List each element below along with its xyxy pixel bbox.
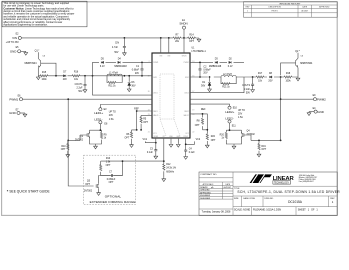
diode D5 6.1V: [101, 61, 104, 63]
svg-text:REF: REF: [134, 108, 139, 110]
svg-text:TECHNOLOGY: TECHNOLOGY: [274, 183, 290, 185]
transistor Q1 MMBT3904: [38, 59, 41, 68]
ground (E5): [24, 51, 28, 55]
terminal E11 LED2-: [228, 120, 231, 123]
svg-text:CONTRACT NO.: CONTRACT NO.: [200, 173, 217, 176]
U1 exposed pad (dashed): [160, 74, 174, 119]
ground (Q2 emitter): [296, 77, 300, 81]
svg-text:PWM1: PWM1: [153, 62, 158, 64]
svg-text:OPT: OPT: [106, 165, 111, 167]
svg-text:22: 22: [192, 131, 194, 133]
svg-text:R15: R15: [42, 72, 47, 74]
ground (Q4/R20): [232, 145, 236, 149]
svg-text:+UP TO 36V: +UP TO 36V: [6, 42, 19, 44]
resistor R14 OPT: [184, 37, 199, 39]
svg-text:2N7002: 2N7002: [84, 191, 93, 193]
svg-text:SHEET 1 OF 1: SHEET 1 OF 1: [298, 209, 319, 212]
svg-text:6.1V: 6.1V: [228, 66, 233, 68]
svg-text:50V: 50V: [246, 92, 251, 94]
svg-text:OPT: OPT: [261, 149, 266, 151]
svg-text:R16: R16: [74, 72, 79, 74]
ground (E7): [23, 113, 27, 117]
resistor R6 OPT (divider bottom): [130, 132, 132, 138]
resistor R13 1.3k OPT: [100, 165, 102, 171]
resistor R10 OPT: [67, 140, 69, 153]
svg-text:VREF: VREF: [154, 136, 159, 138]
svg-text:600kHz: 600kHz: [166, 171, 175, 173]
junction VIN/C5: [124, 37, 126, 39]
svg-text:20V: 20V: [135, 73, 140, 75]
terminal E1 SHDN: [182, 26, 185, 29]
svg-text:RT: RT: [163, 136, 165, 138]
svg-text:OPT: OPT: [211, 140, 216, 142]
zener D1: [209, 77, 211, 82]
Linear Technology logo: [250, 174, 318, 184]
svg-text:21: 21: [148, 131, 150, 133]
ground (COUT2): [251, 88, 255, 92]
svg-text:SCALE: NONE: SCALE: NONE: [234, 209, 250, 212]
terminal E10 LED2+: [228, 106, 231, 109]
wire Q2 collector stub: [297, 53, 299, 77]
wire E8 to dimming node: [90, 124, 102, 145]
capacitor CIN 4.7uF: [123, 46, 126, 47]
svg-text:Fax: (408)434-0507: Fax: (408)434-0507: [299, 181, 314, 183]
diode D3 MMBD4448: [215, 61, 218, 63]
terminal E5 GND: [18, 50, 21, 53]
terminal E9 PWM2: [313, 98, 316, 101]
svg-text:LED2+: LED2+: [225, 110, 234, 114]
svg-text:DESIGNER: DESIGNER: [200, 198, 211, 200]
svg-text:VC1: VC1: [143, 139, 148, 141]
revision history table: [244, 2, 338, 17]
svg-text:OPT: OPT: [61, 149, 66, 151]
svg-text:EXTENDED DIMMING RANGE: EXTENDED DIMMING RANGE: [90, 200, 136, 204]
svg-text:LINEAR: LINEAR: [273, 176, 295, 182]
svg-text:VADJ1: VADJ1: [153, 114, 158, 117]
svg-text:OPT: OPT: [189, 41, 194, 43]
svg-text:2.2uF: 2.2uF: [244, 89, 251, 91]
terminal E8 LED1-: [99, 121, 102, 124]
svg-text:FILENAME: 1015A-1.DSN: FILENAME: 1015A-1.DSN: [253, 209, 281, 212]
svg-text:CIN: CIN: [115, 43, 119, 45]
svg-text:50V: 50V: [78, 91, 83, 93]
svg-text:SW1: SW1: [153, 77, 157, 79]
ground (COUT1): [83, 89, 87, 93]
svg-text:R19: R19: [261, 146, 266, 148]
resistor R20 1k: [225, 132, 227, 138]
svg-text:Q1 *: Q1 *: [35, 50, 40, 52]
svg-text:SHDN: SHDN: [179, 22, 187, 26]
svg-text:REVISION HISTORY: REVISION HISTORY: [280, 3, 301, 5]
svg-text:36V: 36V: [131, 86, 136, 88]
svg-text:0.68uF: 0.68uF: [203, 70, 211, 72]
terminal E2 VIN: [18, 36, 21, 39]
wire Q2 base run: [281, 63, 296, 140]
svg-text:Applications Engineering for a: Applications Engineering for assistance.: [3, 24, 48, 27]
resistor R8 OPT (REF2 top): [201, 118, 203, 124]
wire CAP1 row: [93, 62, 153, 75]
resistor R12 24.3k: [163, 164, 165, 170]
wire LED2 sense row: [190, 77, 244, 93]
svg-text:VC2: VC2: [196, 139, 201, 141]
svg-text:LED2: LED2: [184, 92, 188, 94]
wire Q3 gate: [68, 135, 87, 140]
svg-text:R18: R18: [286, 73, 291, 75]
diode D4 MMBD4448: [118, 61, 121, 63]
svg-text:DATE: DATE: [302, 6, 307, 9]
svg-text:0.1uF: 0.1uF: [147, 152, 154, 154]
svg-text:APPROVED: APPROVED: [319, 6, 330, 9]
svg-text:2.2uF: 2.2uF: [77, 88, 84, 90]
svg-text:DC1015A: DC1015A: [288, 200, 303, 204]
svg-text:1.5A: 1.5A: [109, 118, 114, 121]
ground (D1): [208, 88, 212, 92]
svg-text:Q2 *: Q2 *: [295, 51, 300, 53]
capacitor C2 0.68uF: [199, 69, 202, 70]
svg-text:50V: 50V: [114, 52, 119, 54]
svg-text:24.3k 1%: 24.3k 1%: [166, 168, 176, 170]
wire Q1 base to node: [41, 63, 56, 76]
svg-text:COUT2: COUT2: [242, 85, 251, 87]
svg-text:100k: 100k: [41, 79, 47, 81]
svg-text:LED1-: LED1-: [94, 117, 102, 121]
svg-text:SYNC: SYNC: [183, 136, 188, 138]
wire LED1 sense row: [93, 76, 153, 95]
svg-text:OPTIONAL: OPTIONAL: [105, 194, 122, 198]
svg-text:R13: R13: [106, 158, 111, 160]
svg-text:100k: 100k: [285, 80, 291, 82]
svg-text:LT3476EPE-1: LT3476EPE-1: [192, 51, 207, 53]
svg-text:SHDN: SHDN: [182, 56, 188, 58]
svg-text:REF1: REF1: [153, 111, 157, 113]
svg-text:0.68uF: 0.68uF: [132, 69, 140, 71]
svg-text:R20: R20: [220, 134, 225, 136]
transistor Q4 2N7002: [242, 132, 245, 138]
svg-text:Tuesday, January 08, 2008: Tuesday, January 08, 2008: [202, 211, 231, 214]
ground (R14): [197, 38, 201, 42]
capacitor C1 0.68uF: [141, 62, 143, 75]
svg-text:R11 1k: R11 1k: [108, 85, 116, 87]
wire LED1 pin to E3: [100, 105, 152, 108]
svg-text:20V: 20V: [109, 115, 114, 117]
svg-text:MMBT3904: MMBT3904: [300, 63, 313, 65]
inductor L1 47uH: [107, 74, 122, 76]
svg-text:CAGE CODE: CAGE CODE: [243, 197, 256, 200]
svg-text:GND: GND: [9, 111, 16, 115]
wire PWM2 row to U1: [190, 98, 281, 100]
wire PWM1 run: [22, 99, 152, 186]
svg-text:LED2-: LED2-: [225, 117, 233, 121]
wire VIN rail: [21, 37, 184, 39]
svg-text:CHECKED: CHECKED: [200, 190, 210, 192]
ground (Q1 emitter): [36, 76, 40, 80]
capacitor COUT1 2.2uF: [84, 76, 86, 85]
wire VC1: [145, 141, 155, 142]
svg-text:20V: 20V: [238, 113, 243, 115]
svg-text:E11: E11: [232, 125, 237, 127]
svg-text:06/13/07: 06/13/07: [301, 10, 308, 12]
svg-text:UP TO: UP TO: [109, 112, 116, 114]
svg-text:REF2: REF2: [184, 111, 188, 113]
svg-text:OPT: OPT: [195, 125, 200, 127]
transistor Q5 2N7002 OPT: [96, 183, 99, 189]
wire VC2: [186, 141, 195, 144]
capacitor C4 0.1uF: [185, 139, 187, 156]
svg-text:DATE: DATE: [225, 183, 230, 186]
ground (Q5): [97, 192, 101, 196]
capacitor COUT2 2.2uF: [252, 77, 254, 84]
ground (E4): [307, 112, 311, 116]
wire LED2 pin to E10: [190, 104, 230, 106]
ground (CIN): [123, 52, 127, 56]
resistor R15 100k: [40, 75, 48, 77]
svg-text:R12: R12: [166, 164, 171, 166]
svg-text:PWM2: PWM2: [184, 62, 189, 64]
svg-text:SCH, LT3476EPE-1, DUAL STEP-DO: SCH, LT3476EPE-1, DUAL STEP-DOWN 1.5A LE…: [237, 190, 340, 194]
resistor R17 10k: [256, 76, 264, 78]
svg-text:COUT1: COUT1: [75, 84, 84, 86]
terminal E6 PWM1: [19, 98, 22, 101]
resistor R21 (parallel sense): [221, 77, 236, 84]
svg-text:OPT: OPT: [85, 184, 90, 186]
resistor R11 (parallel sense): [107, 76, 122, 83]
ground (R12): [162, 178, 166, 182]
terminal E7 GND: [17, 111, 20, 114]
resistor R18 100k: [284, 76, 292, 78]
ground (R10): [66, 154, 70, 158]
svg-text:L1 47uH: L1 47uH: [109, 73, 118, 75]
ground (C4): [184, 155, 188, 159]
svg-text:R14: R14: [189, 35, 194, 37]
svg-text:OPT: OPT: [125, 137, 130, 139]
diode D2 6.1V: [229, 61, 232, 63]
wire SW2 row: [190, 76, 298, 78]
wire CAP2 row: [190, 62, 244, 77]
svg-text:LED1+: LED1+: [94, 111, 103, 115]
title block: [199, 172, 340, 215]
svg-text:VC2: VC2: [185, 133, 188, 135]
op IC U1 LT3476EPE-1 body: [152, 53, 190, 138]
svg-text:DWG NO.: DWG NO.: [265, 198, 274, 200]
svg-text:6.1V: 6.1V: [100, 66, 105, 68]
svg-text:MMBD4448: MMBD4448: [209, 66, 222, 68]
ground (R19): [257, 153, 261, 157]
wire RT pin run: [101, 139, 164, 178]
svg-text:R10: R10: [61, 146, 66, 148]
diode D8 20V: [269, 76, 272, 78]
svg-text:06/13/07: 06/13/07: [224, 187, 231, 189]
wire REF2: [190, 114, 207, 144]
wire Q4 gate: [244, 135, 281, 140]
svg-text:SIZE: SIZE: [234, 198, 239, 200]
svg-text:20V: 20V: [63, 79, 68, 81]
diode D7 20V: [63, 75, 66, 77]
svg-text:SW2: SW2: [185, 77, 189, 79]
svg-text:plk: plk: [211, 187, 213, 189]
terminal E4 GND: [314, 110, 317, 113]
svg-text:1: 1: [247, 10, 248, 12]
zener D6: [128, 76, 130, 82]
svg-text:R21 1k: R21 1k: [222, 87, 230, 89]
svg-text:LED1: LED1: [153, 92, 157, 94]
node SW1 feedback row: [38, 75, 152, 77]
resistor R7 20k: [173, 37, 181, 39]
svg-text:DRAWN: DRAWN: [200, 186, 208, 189]
resistor R16 10k: [72, 75, 80, 77]
wire REF1: [132, 111, 153, 144]
svg-text:4.7uF: 4.7uF: [112, 47, 119, 49]
svg-text:R17: R17: [258, 73, 263, 75]
svg-text:1.5A: 1.5A: [238, 116, 243, 119]
svg-text:VIN: VIN: [12, 36, 17, 40]
inductor L2 47uH: [221, 75, 236, 77]
svg-text:36V: 36V: [201, 86, 206, 88]
svg-text:MMBT3904: MMBT3904: [24, 63, 37, 65]
svg-text:APPROVED: APPROVED: [200, 191, 211, 194]
resistor R22 OPT (REF2 bottom): [206, 134, 208, 140]
ground (R22): [205, 144, 209, 148]
grounds (U1 GND pins): [171, 139, 178, 144]
wire PWM2 run: [281, 98, 314, 100]
svg-text:PROTO: PROTO: [272, 10, 279, 12]
svg-text:GND: GND: [317, 110, 324, 114]
wire E5 to ground: [20, 50, 25, 52]
svg-text:* SEE QUICK START GUIDE: * SEE QUICK START GUIDE: [7, 189, 50, 194]
ground (D6): [127, 88, 131, 92]
svg-text:APPROVALS: APPROVALS: [203, 183, 215, 186]
ground (R6): [130, 144, 134, 148]
wire E11 to dimming node: [226, 123, 241, 145]
svg-text:19: 19: [192, 109, 194, 111]
svg-text:REF: REF: [201, 109, 206, 111]
proprietary notice text box: [2, 1, 87, 27]
drawing frame border: [2, 2, 338, 216]
ground (C3): [154, 155, 158, 159]
svg-text:DESCRIPTION: DESCRIPTION: [269, 7, 282, 9]
capacitor C3 0.1uF: [155, 139, 157, 155]
svg-text:26: 26: [148, 91, 150, 93]
svg-text:OPT: OPT: [143, 122, 148, 124]
svg-text:0.1uF: 0.1uF: [189, 152, 196, 154]
transistor Q3 2N7002: [87, 132, 90, 138]
svg-text:OPT: OPT: [109, 182, 114, 184]
svg-text:L2 47uH: L2 47uH: [223, 74, 232, 76]
capacitor C7: [111, 174, 112, 177]
svg-text:GND: GND: [10, 50, 17, 54]
svg-text:20V: 20V: [203, 72, 208, 74]
ground (Q3/R9): [94, 145, 98, 149]
resistor R19 OPT: [258, 140, 260, 153]
transistor Q2 MMBT3904: [296, 58, 298, 67]
resistor R9 1k: [100, 132, 102, 138]
svg-text:VADJ2: VADJ2: [184, 114, 189, 117]
svg-text:MMBD4448: MMBD4448: [114, 66, 127, 68]
svg-text:PWM2: PWM2: [317, 97, 326, 101]
wire Q1 collector stub: [37, 52, 39, 76]
svg-text:VC1: VC1: [153, 133, 156, 135]
svg-text:PWM1: PWM1: [9, 97, 18, 101]
terminal E3 LED1+: [99, 108, 102, 111]
resistor R5 OPT (VADJ1 divider top): [140, 117, 142, 123]
svg-text:UP TO: UP TO: [238, 110, 245, 112]
svg-text:20V: 20V: [268, 80, 273, 82]
dashed box optional dimming: [84, 155, 136, 204]
svg-text:0.068uF: 0.068uF: [107, 179, 116, 181]
svg-text:ENGINEER: ENGINEER: [200, 195, 211, 197]
svg-text:R22: R22: [211, 136, 216, 138]
